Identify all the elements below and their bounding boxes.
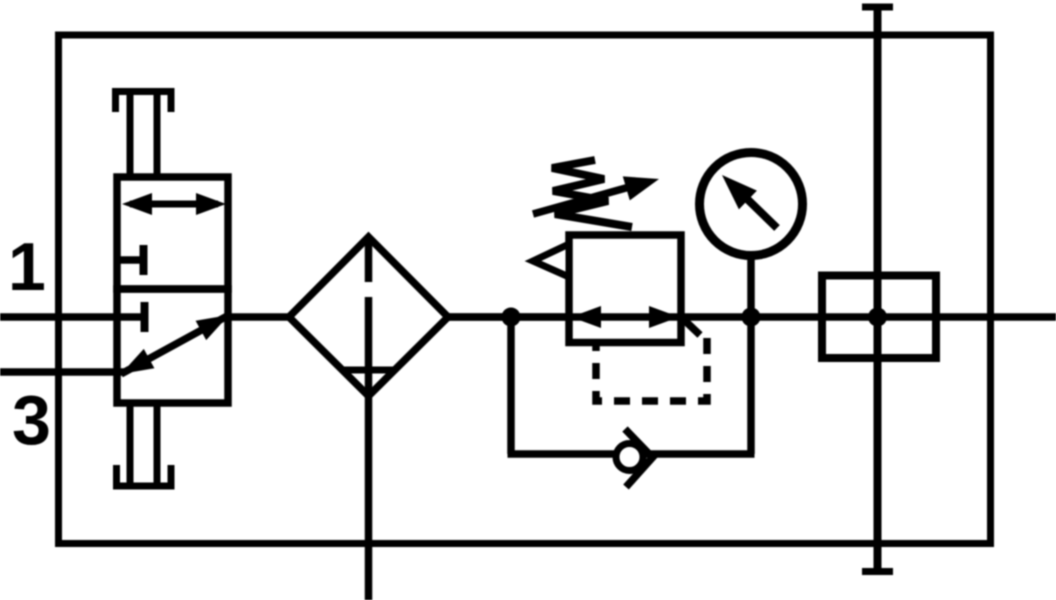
bypass line right xyxy=(747,317,755,454)
main line right xyxy=(448,313,1056,321)
enclosure frame xyxy=(59,35,991,544)
regulator R1 relief vent triangle xyxy=(533,244,569,277)
distribution line bottom cap xyxy=(862,568,893,575)
node junction gauge xyxy=(742,308,761,327)
gauge G1 stem xyxy=(747,256,755,317)
gauge G1 needle xyxy=(722,175,777,228)
regulator R1 pilot stub xyxy=(681,317,700,335)
node junction bypass xyxy=(502,308,521,327)
node junction outlet xyxy=(868,308,887,327)
bypass line left xyxy=(507,317,515,454)
check valve ball xyxy=(616,444,643,471)
valve V1 upper flow arrow xyxy=(122,193,226,215)
regulator R1 body xyxy=(569,235,681,343)
pressure gauge G1 xyxy=(700,153,803,256)
port 1 line xyxy=(0,313,141,321)
regulator R1 flow arrow xyxy=(571,306,679,328)
distribution line top cap xyxy=(862,4,893,11)
wire valve to filter xyxy=(228,313,292,321)
outlet module body xyxy=(822,276,936,359)
bypass line bottom xyxy=(508,450,755,458)
regulator R1 pilot dashed line xyxy=(596,338,707,401)
valve V1 lower box xyxy=(117,289,228,403)
valve V1 upper blocked port xyxy=(117,245,144,275)
svg-text:1: 1 xyxy=(8,229,46,305)
valve V1 bottom actuator xyxy=(113,403,175,486)
check valve seat xyxy=(625,429,653,487)
distribution line vertical xyxy=(874,7,882,572)
valve V1 lower blocked port xyxy=(141,302,149,332)
wire filter to regulator xyxy=(448,313,572,321)
valve V1 lower flow path arrow xyxy=(121,315,229,374)
filter F1 element dashed line xyxy=(365,242,373,282)
valve V1 upper box xyxy=(117,177,228,289)
port 3 line xyxy=(0,368,124,376)
valve V1 top actuator xyxy=(112,92,175,178)
svg-text:3: 3 xyxy=(12,381,51,459)
regulator R1 adjustment arrow xyxy=(533,176,659,214)
filter F1 diamond xyxy=(289,237,448,396)
regulator R1 spring xyxy=(552,160,632,227)
filter F1 drain line xyxy=(365,297,373,600)
filter F1 separator chord xyxy=(342,367,396,374)
